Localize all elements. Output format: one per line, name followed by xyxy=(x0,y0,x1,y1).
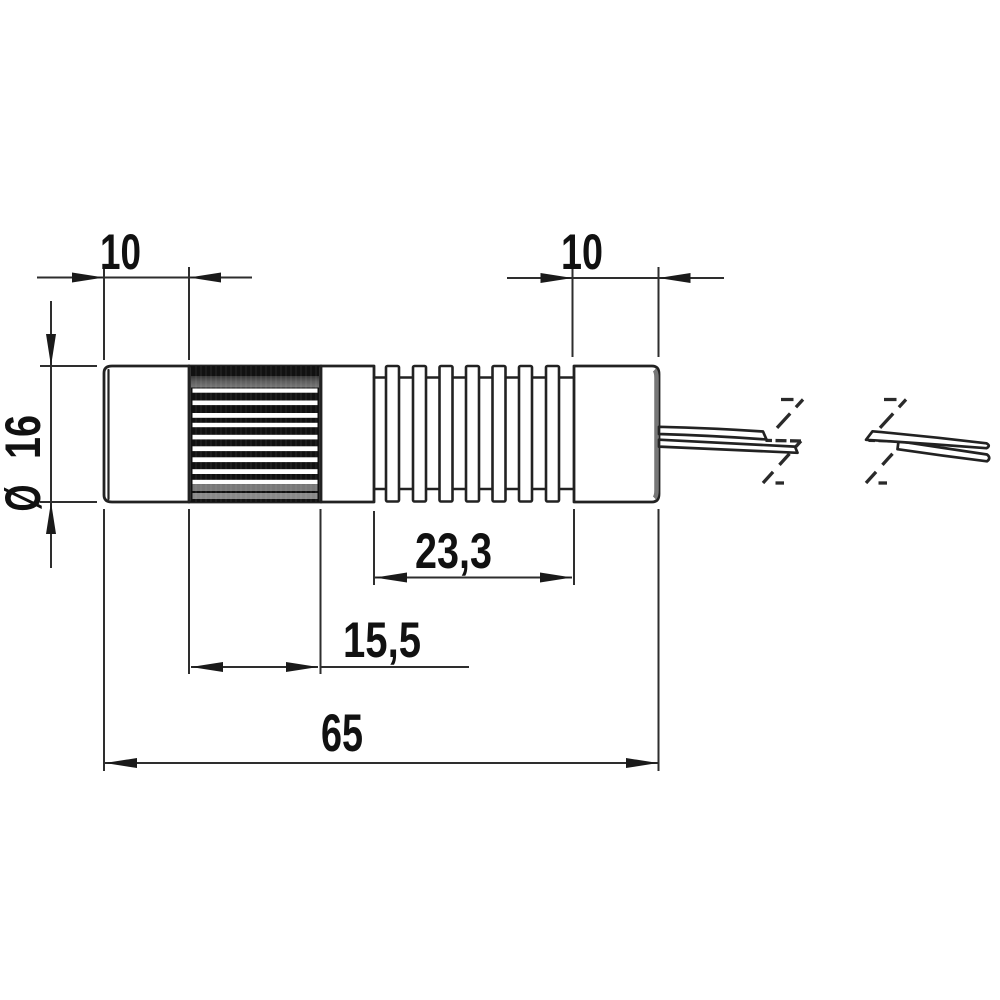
svg-text:10: 10 xyxy=(561,224,603,280)
dimension 10 left: arrows xyxy=(72,273,104,283)
collar section between knurl and ribs xyxy=(189,366,374,502)
right cap section outline xyxy=(574,366,659,502)
dimension 23,3: line with inside arrows xyxy=(375,577,572,579)
dimension dia 16: vertical line xyxy=(50,301,52,568)
ext line x=104 top xyxy=(103,265,105,360)
ext line x=104 bottom xyxy=(103,509,105,771)
ext line x=572.5 top xyxy=(572,267,574,357)
wire 1 left segment xyxy=(659,427,767,440)
extension lines top xyxy=(104,265,659,360)
right cap rear face shading xyxy=(655,370,657,498)
dimension 10 right: line xyxy=(507,277,724,279)
wire 1 right segment xyxy=(866,431,989,448)
extension lines bottom xyxy=(104,509,659,771)
diameter extension lines (horizontal) xyxy=(40,366,97,502)
svg-text:15,5: 15,5 xyxy=(343,612,421,668)
dimension 15,5: line with inside arrows and tail xyxy=(191,666,469,668)
break symbol 2 (dashed zigzag) xyxy=(866,400,906,484)
wire 2 right segment xyxy=(898,441,990,461)
dimension 10 right: arrows xyxy=(541,273,573,283)
body outline: left cap section xyxy=(104,366,189,502)
ext line x=189 bottom xyxy=(188,509,190,674)
knurled focus ring fill xyxy=(191,366,320,502)
svg-text:65: 65 xyxy=(321,704,363,763)
ribs of strain relief xyxy=(386,366,559,502)
dimension dia 16: arrows xyxy=(46,334,56,366)
dimension 10 left: line xyxy=(37,277,252,279)
ext line x=658.5 bottom xyxy=(658,509,660,771)
left cap front face inner edge xyxy=(107,370,109,499)
knurl fine vertical texture xyxy=(196,366,316,502)
svg-text:23,3: 23,3 xyxy=(415,523,492,579)
svg-text:Ø: Ø xyxy=(0,485,51,512)
ext line x=574 bottom xyxy=(573,509,575,585)
knurl section boundary lines xyxy=(189,366,321,502)
wire 2 left segment xyxy=(659,440,798,453)
ext line x=320.5 bottom xyxy=(320,509,322,674)
ext line x=189 top xyxy=(188,267,190,360)
break symbol 1 (dashed zigzag) xyxy=(763,400,803,484)
svg-text:16: 16 xyxy=(0,415,51,459)
svg-text:10: 10 xyxy=(100,224,141,280)
dimension 65: line with inside arrows xyxy=(105,762,658,764)
ext line x=374 bottom xyxy=(373,511,375,585)
recessed groove profile under ribs xyxy=(374,378,574,490)
ext line x=658.5 top xyxy=(658,267,660,357)
knurl white stripes xyxy=(193,389,318,485)
